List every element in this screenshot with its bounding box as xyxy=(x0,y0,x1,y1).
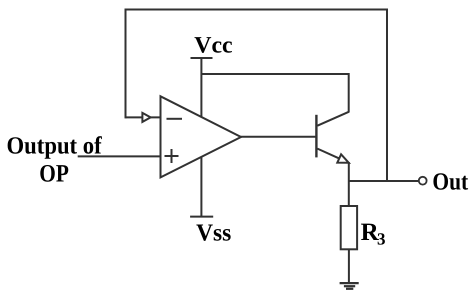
svg-text:Vcc: Vcc xyxy=(194,32,232,58)
wire: top feedback rail xyxy=(125,9,388,11)
wire: left feedback drop to inverting input xyxy=(125,9,127,119)
wire: Vcc rail to transistor collector xyxy=(201,73,348,75)
Out terminal circle xyxy=(419,177,427,185)
svg-text:OP: OP xyxy=(39,160,69,187)
op-amp non-inverting pin label (+) xyxy=(165,149,179,163)
Vss supply bar xyxy=(190,216,213,218)
svg-text:3: 3 xyxy=(377,229,386,248)
svg-text:Output of: Output of xyxy=(7,132,103,159)
resistor R3 xyxy=(341,206,357,249)
arrowhead (signal direction) on inverting input wire xyxy=(142,113,150,122)
wire: emitter drop to output node xyxy=(348,162,350,207)
transistor Q1 (NPN) xyxy=(316,112,348,163)
Vcc supply bar xyxy=(191,57,213,59)
op-amp inverting pin label (-) xyxy=(167,118,183,120)
wire: non-inverting input from Output of OP xyxy=(78,155,161,157)
op-amp U1 xyxy=(161,96,242,177)
svg-text:Out: Out xyxy=(432,168,469,195)
wire: collector drop xyxy=(348,73,350,113)
svg-text:Vss: Vss xyxy=(196,219,231,246)
wire: resistor to ground xyxy=(348,249,350,282)
wire: right feedback drop from top rail xyxy=(386,9,388,182)
wire: Vcc drop to op-amp top xyxy=(200,58,202,117)
wire: output node to Out terminal xyxy=(349,180,419,182)
wire: inverting input segment xyxy=(126,116,161,118)
wire: op-amp output to base xyxy=(240,136,316,138)
ground xyxy=(340,283,359,289)
wire: op-amp bottom to Vss xyxy=(200,157,202,216)
